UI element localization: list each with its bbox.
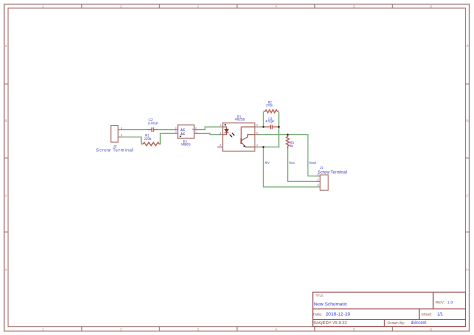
- svg-text:New Schematic: New Schematic: [314, 302, 348, 308]
- svg-text:3: 3: [197, 4, 199, 8]
- svg-text:REV:: REV:: [436, 299, 445, 304]
- svg-text:4: 4: [275, 4, 277, 8]
- svg-text:Date:: Date:: [313, 312, 322, 316]
- svg-text:270k: 270k: [266, 104, 273, 108]
- svg-text:470pF: 470pF: [265, 120, 274, 124]
- svg-text:6: 6: [430, 4, 432, 8]
- svg-text:0.47uF: 0.47uF: [148, 122, 159, 126]
- svg-text:2: 2: [120, 4, 122, 8]
- svg-text:Sheet:: Sheet:: [421, 312, 432, 316]
- svg-text:6: 6: [430, 327, 432, 331]
- svg-text:Screw Terminal: Screw Terminal: [318, 169, 347, 174]
- svg-text:Vcc: Vcc: [289, 161, 295, 165]
- svg-text:3: 3: [197, 327, 199, 331]
- svg-text:Vout: Vout: [309, 161, 316, 165]
- svg-text:AC: AC: [180, 132, 185, 136]
- svg-text:MB6S: MB6S: [181, 143, 191, 147]
- svg-text:B: B: [466, 119, 468, 123]
- svg-text:4: 4: [275, 327, 277, 331]
- svg-text:5: 5: [353, 4, 355, 8]
- svg-text:dvincent: dvincent: [411, 320, 427, 325]
- svg-text:1: 1: [42, 327, 44, 331]
- svg-text:2: 2: [120, 327, 122, 331]
- svg-text:220k: 220k: [144, 137, 152, 141]
- svg-text:5: 5: [353, 327, 355, 331]
- svg-text:Drawn By:: Drawn By:: [388, 321, 406, 325]
- svg-text:EasyEDA V5.9.22: EasyEDA V5.9.22: [314, 320, 348, 325]
- svg-text:TITLE:: TITLE:: [315, 294, 324, 298]
- svg-text:2018-12-19: 2018-12-19: [326, 311, 351, 317]
- svg-text:4N25S: 4N25S: [235, 117, 246, 121]
- svg-text:1.0: 1.0: [447, 299, 453, 304]
- svg-text:1/1: 1/1: [437, 311, 443, 316]
- svg-text:HV: HV: [265, 161, 270, 165]
- svg-text:1k: 1k: [290, 144, 294, 148]
- svg-text:B: B: [5, 119, 7, 123]
- svg-text:Screw Terminal: Screw Terminal: [96, 148, 134, 153]
- svg-text:1: 1: [42, 4, 44, 8]
